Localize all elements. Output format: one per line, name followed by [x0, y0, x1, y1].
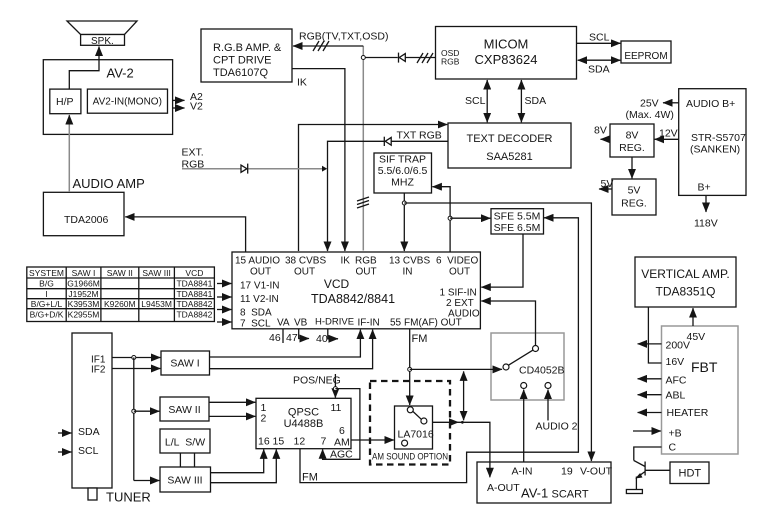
svg-text:U4488B: U4488B: [284, 418, 324, 430]
svg-text:VCD: VCD: [324, 277, 350, 291]
svg-text:IF2: IF2: [91, 365, 106, 376]
block TUNER: [72, 333, 112, 500]
svg-text:17 V1-IN: 17 V1-IN: [240, 281, 279, 292]
bus hatch on RGB line: [313, 41, 329, 51]
svg-text:AUDIO B+: AUDIO B+: [686, 98, 735, 110]
table header text: [29, 268, 203, 278]
wire gray EXT RGB line: [182, 166, 327, 172]
block QPSC U4488B: [256, 398, 351, 448]
svg-text:SIF TRAP: SIF TRAP: [379, 154, 426, 166]
wire MICOM SCL to EEPROM: [577, 42, 621, 44]
svg-text:RGB: RGB: [441, 57, 460, 67]
svg-text:8 SDA: 8 SDA: [240, 308, 272, 319]
svg-text:15 AUDIO: 15 AUDIO: [235, 256, 280, 267]
svg-text:REG.: REG.: [621, 198, 647, 210]
svg-text:IK: IK: [341, 256, 351, 267]
svg-text:ABL: ABL: [666, 390, 686, 402]
svg-text:L9453M: L9453M: [141, 299, 172, 309]
svg-text:AM SOUND OPTION: AM SOUND OPTION: [372, 452, 448, 463]
block AV-2: [43, 60, 172, 135]
wire stub arrow to VCD pin17 V1-IN: [217, 283, 231, 285]
svg-text:TDA8842: TDA8842: [176, 309, 212, 319]
wire B+ 118V: [705, 195, 707, 212]
svg-text:RGB(TV,TXT,OSD): RGB(TV,TXT,OSD): [299, 31, 388, 43]
svg-text:FM: FM: [412, 333, 428, 345]
svg-text:SDA: SDA: [78, 426, 100, 438]
VCD right pin labels: [440, 288, 480, 320]
QPSC pin labels: [258, 402, 350, 449]
wire SFE to VCD SIF-IN: [481, 234, 523, 287]
svg-text:IF-IN: IF-IN: [358, 318, 380, 329]
svg-text:REG.: REG.: [619, 142, 645, 154]
block SAW II: [160, 397, 209, 421]
svg-text:1 SIF-IN: 1 SIF-IN: [440, 288, 477, 299]
wire L/L S/W to SAW III link 1: [179, 453, 181, 467]
wire AUDIO 2 up to CD4052B: [547, 390, 549, 421]
block L/L S/W: [160, 429, 210, 453]
wire VCD pin VA stub: [282, 329, 284, 343]
wire SCL stub into TUNER: [58, 451, 71, 453]
wire VCD pin VB bent arrow: [299, 329, 309, 339]
svg-text:AUDIO AMP: AUDIO AMP: [73, 176, 145, 191]
svg-text:CPT DRIVE: CPT DRIVE: [213, 55, 271, 67]
svg-text:16: 16: [258, 436, 270, 448]
svg-text:19: 19: [561, 466, 573, 478]
svg-text:+B: +B: [669, 428, 682, 440]
wire SAW I out 1 to VCD IF-IN: [210, 330, 361, 357]
wire SIF TRAP to VCD CVBS IN: [403, 193, 405, 251]
block SAW III: [160, 467, 211, 492]
wire POS/NEG into QPSC pin11: [334, 374, 336, 398]
transistor Q horizontal output: [634, 461, 670, 490]
wire QPSC pin12 FM to SFE: [300, 218, 578, 483]
wire CVBS OUT to TEXT DECODER: [299, 125, 448, 252]
svg-text:8V: 8V: [594, 125, 607, 137]
svg-text:MHZ: MHZ: [391, 177, 414, 189]
svg-text:5V: 5V: [628, 185, 641, 197]
wire MICOM SDA to EEPROM double arrow: [578, 59, 621, 61]
wire SAW I out 2 to VCD IF-IN: [210, 330, 373, 369]
node junction on CVBS IN line: [402, 201, 406, 205]
svg-text:R.G.B AMP. &: R.G.B AMP. &: [213, 42, 282, 54]
svg-text:V2: V2: [190, 101, 203, 113]
svg-text:7: 7: [321, 436, 327, 448]
wire 12V STR to 8V REG: [655, 138, 679, 140]
svg-text:L/L S/W: L/L S/W: [165, 437, 205, 449]
svg-text:SAW II: SAW II: [168, 404, 200, 416]
block EEPROM: [621, 41, 671, 63]
wire gray TDA2006 to H/P arrow: [68, 115, 70, 192]
svg-text:SAW I: SAW I: [170, 358, 199, 370]
svg-text:RGB: RGB: [182, 159, 205, 171]
svg-text:B+: B+: [698, 182, 711, 194]
wire MICOM-TEXTDECODER SDA double arrow: [520, 80, 522, 122]
svg-text:K3953M: K3953M: [68, 299, 100, 309]
table row B/G+L/L: [31, 299, 213, 309]
svg-text:SAW II: SAW II: [107, 268, 133, 278]
node junction on IF1 line: [132, 356, 136, 360]
wire SAW III out to QPSC pin16: [211, 449, 264, 472]
wire FBT HEATER out: [638, 412, 662, 414]
svg-text:OUT: OUT: [449, 267, 470, 278]
wire SDA stub into TUNER: [58, 432, 71, 434]
svg-text:FM(AF) OUT: FM(AF) OUT: [404, 318, 462, 329]
speaker SPK box: [81, 35, 125, 46]
table system/SAW/VCD: [27, 267, 215, 322]
wire VCD pin55 FM(AF) OUT down to LA7016: [409, 329, 411, 405]
svg-text:200V: 200V: [666, 340, 691, 352]
wire FBT 45V to VERTICAL AMP: [692, 308, 694, 326]
svg-text:FBT: FBT: [691, 359, 718, 375]
wire gray RGB from VCD RGB OUT up: [362, 46, 364, 251]
table row B/G+D/K: [30, 309, 213, 319]
svg-text:SCART: SCART: [552, 489, 589, 501]
wire MICOM-TEXTDECODER SCL double arrow: [486, 80, 488, 122]
svg-text:TXT RGB: TXT RGB: [397, 130, 442, 142]
svg-text:I: I: [45, 289, 47, 299]
svg-text:J1952M: J1952M: [68, 289, 98, 299]
svg-text:11: 11: [331, 402, 342, 414]
svg-text:TUNER: TUNER: [106, 490, 151, 505]
node dot on AM option line: [461, 421, 464, 424]
svg-text:6: 6: [339, 425, 345, 437]
svg-text:SCL: SCL: [589, 32, 610, 44]
svg-text:55: 55: [390, 318, 402, 329]
svg-text:TDA8842/8841: TDA8842/8841: [311, 292, 395, 306]
switch contacts inside CD4052B: [503, 346, 551, 389]
svg-text:LA7016: LA7016: [398, 429, 434, 441]
svg-text:VB: VB: [294, 318, 308, 329]
svg-text:11 V2-IN: 11 V2-IN: [240, 294, 279, 305]
block MICOM CXP83624: [436, 27, 577, 80]
svg-text:12V: 12V: [659, 128, 678, 140]
wire VERTICAL AMP to FBT 16V: [648, 308, 661, 364]
block R.G.B AMP and CPT DRIVE TDA6107Q: [201, 29, 292, 82]
wire AGC loop to QPSC pin7: [323, 389, 360, 460]
block HDT: [670, 462, 709, 484]
wire VCD 15 AUDIO OUT to TDA2006: [125, 217, 245, 252]
svg-text:MICOM: MICOM: [484, 37, 529, 52]
svg-text:SAW I: SAW I: [72, 268, 96, 278]
svg-text:8V: 8V: [626, 130, 639, 142]
diode D on TXT RGB line: [384, 137, 391, 146]
svg-text:(Max. 4W): (Max. 4W): [626, 109, 674, 121]
svg-text:AV-2: AV-2: [107, 66, 134, 81]
svg-text:7 SCL: 7 SCL: [240, 319, 271, 330]
wire video branch to AV-1 V-OUT: [404, 203, 591, 461]
svg-text:15: 15: [273, 436, 285, 448]
block AV-1 SCART: [477, 462, 611, 503]
wire LA7016 out arrow to junction: [433, 421, 459, 423]
svg-text:K2955M: K2955M: [68, 309, 100, 319]
svg-text:40: 40: [316, 333, 328, 345]
wire L/L S/W to SAW III link 2: [194, 453, 196, 467]
svg-text:SAW III: SAW III: [142, 268, 171, 278]
wire FBT AFC out: [638, 378, 662, 380]
svg-text:AV2-IN(MONO): AV2-IN(MONO): [93, 97, 162, 108]
block 8V REG: [610, 124, 654, 157]
wire junction to AV-1 A-OUT: [459, 422, 490, 477]
svg-text:12: 12: [294, 436, 306, 448]
wire QPSC AM out to LA7016: [351, 439, 394, 441]
block H/P: [50, 89, 81, 114]
svg-text:TDA8841: TDA8841: [176, 279, 212, 289]
dashed box AM SOUND OPTION: [370, 381, 450, 465]
table row I: [45, 289, 212, 299]
svg-text:HDT: HDT: [679, 468, 702, 480]
svg-text:FM: FM: [302, 472, 318, 484]
wire IK from R.G.B AMP to VCD: [292, 69, 345, 251]
svg-text:IK: IK: [297, 77, 307, 89]
wire SAW II out 1 to QPSC pin1: [209, 401, 255, 403]
svg-text:38 CVBS: 38 CVBS: [285, 256, 326, 267]
diode D on OSD RGB branch: [399, 53, 436, 63]
svg-text:SDA: SDA: [588, 64, 610, 76]
bus hatch on OSD RGB branch: [417, 53, 433, 63]
svg-text:5.5/6.0/6.5: 5.5/6.0/6.5: [378, 165, 428, 177]
wire SAW II out 2 to QPSC pin2: [209, 415, 255, 417]
svg-text:SCL: SCL: [465, 95, 486, 107]
svg-text:POS/NEG: POS/NEG: [293, 375, 341, 387]
svg-text:16V: 16V: [666, 356, 685, 368]
svg-text:118V: 118V: [694, 218, 718, 230]
svg-text:AFC: AFC: [666, 375, 687, 387]
svg-text:6 VIDEO: 6 VIDEO: [436, 256, 478, 267]
svg-text:TDA6107Q: TDA6107Q: [213, 67, 268, 79]
node junction on VIDEO OUT line: [448, 216, 452, 220]
svg-text:G1966M: G1966M: [67, 279, 100, 289]
svg-text:A-IN: A-IN: [512, 466, 533, 478]
wire stub arrow to VCD pin11 V2-IN: [217, 296, 231, 298]
VCD left pin labels: [240, 281, 279, 330]
node junction RGB branch: [361, 56, 398, 60]
wire V2 out arrow: [173, 107, 185, 109]
svg-text:CXP83624: CXP83624: [475, 52, 538, 67]
svg-text:VERTICAL AMP.: VERTICAL AMP.: [641, 267, 729, 281]
svg-text:CD4052B: CD4052B: [519, 365, 565, 377]
block LA7016: [395, 406, 433, 449]
svg-text:13 CVBS: 13 CVBS: [389, 256, 430, 267]
svg-text:OUT: OUT: [294, 267, 315, 278]
svg-text:OUT: OUT: [250, 267, 271, 278]
wire 8V out: [601, 138, 611, 140]
diode D on EXT RGB line: [241, 164, 248, 174]
wire TUNER IF2 to SAW I: [112, 368, 160, 370]
wire FBT C to transistor collector: [634, 447, 662, 461]
wire branch to SFE input: [450, 217, 490, 219]
FBT pin labels: [666, 331, 709, 454]
wire AV-2 H/P to SPK with arrow: [69, 47, 99, 90]
block SFE filters: [491, 209, 544, 234]
svg-text:2 EXT: 2 EXT: [446, 298, 474, 309]
block 5V REG: [612, 179, 656, 215]
svg-text:EEPROM: EEPROM: [624, 51, 667, 62]
svg-text:SAA5281: SAA5281: [486, 151, 532, 163]
wire option double arrow between FM and AM lines: [463, 371, 465, 420]
wire AV-1 A-IN up to CD4052B: [523, 390, 525, 462]
wire RGB(TV,TXT,OSD) arrow into R.G.B AMP: [293, 45, 363, 47]
svg-text:25V: 25V: [640, 98, 659, 110]
svg-text:SPK.: SPK.: [91, 36, 114, 47]
wire TXT RGB from TEXT DECODER to VCD: [328, 141, 449, 251]
svg-text:2: 2: [261, 413, 267, 425]
svg-text:OUT: OUT: [356, 267, 377, 278]
svg-text:AM: AM: [334, 437, 350, 449]
svg-text:V-OUT: V-OUT: [580, 466, 613, 478]
svg-text:SAW III: SAW III: [167, 475, 202, 487]
svg-text:K9260M: K9260M: [104, 299, 136, 309]
wire VCD EXT AUDIO from CD4052B common: [481, 301, 535, 346]
switch contacts inside LA7016: [402, 407, 427, 446]
wire 8V REG to 5V REG: [631, 157, 633, 178]
wire A2 out arrow: [173, 99, 185, 101]
speaker SPK horn symbol: [67, 21, 137, 35]
block FBT: [662, 326, 739, 454]
svg-text:AUDIO 2: AUDIO 2: [536, 421, 578, 433]
node junction on FM line: [408, 367, 412, 371]
wire stub arrow to VCD pin8 SDA: [217, 309, 231, 311]
table row B/G: [39, 279, 212, 289]
svg-text:SDA: SDA: [525, 95, 547, 107]
VCD top pin labels: [235, 256, 478, 278]
svg-text:SYSTEM: SYSTEM: [29, 268, 64, 278]
bus hatch on gray RGB vertical: [357, 197, 369, 208]
svg-text:AV-1: AV-1: [521, 486, 548, 501]
wire SAW III out to QPSC pin15: [211, 449, 277, 482]
block TEXT DECODER SAA5281: [448, 123, 571, 168]
wire FBT 200V out: [638, 343, 662, 345]
svg-text:H/P: H/P: [56, 96, 74, 108]
wire TUNER IF1 to SAW I: [112, 357, 160, 359]
block CD4052B switch: [491, 333, 564, 400]
svg-text:SFE 5.5M: SFE 5.5M: [494, 211, 541, 223]
svg-text:TDA8842: TDA8842: [176, 299, 212, 309]
svg-text:VCD: VCD: [185, 268, 203, 278]
svg-text:46: 46: [269, 332, 281, 344]
svg-text:EXT.: EXT.: [182, 147, 204, 159]
svg-text:TDA8841: TDA8841: [176, 289, 212, 299]
wire IF branch down to SAW II and SAW III: [133, 358, 135, 481]
block VERTICAL AMP TDA8351Q: [635, 257, 736, 307]
wire VCD pin H-DRIVE bent arrow: [328, 329, 338, 339]
svg-text:IN: IN: [403, 267, 413, 278]
svg-text:TEXT DECODER: TEXT DECODER: [467, 133, 553, 145]
svg-text:A-OUT: A-OUT: [487, 482, 520, 494]
svg-text:C: C: [669, 442, 677, 454]
block SAW I: [161, 351, 210, 375]
svg-text:B/G: B/G: [39, 279, 54, 289]
block VCD TDA8842/8841: [232, 252, 480, 329]
svg-text:47: 47: [286, 332, 298, 344]
wire branch arrow into SAW II: [134, 410, 160, 412]
node junction on POS/NEG line: [333, 387, 337, 391]
svg-text:RGB: RGB: [355, 256, 377, 267]
wire stub arrow to VCD pin7 SCL: [217, 321, 231, 323]
svg-text:H-DRIVE: H-DRIVE: [315, 317, 354, 328]
wire VCD VIDEO OUT up to SIF TRAP: [432, 187, 450, 252]
wire FM branch to CD4052B: [410, 368, 502, 370]
block STR-S5707 (SANKEN) power: [679, 89, 746, 196]
wire branch arrow into SAW III: [134, 480, 160, 482]
svg-text:TDA2006: TDA2006: [64, 214, 109, 226]
wire FBT ABL out: [638, 394, 662, 396]
svg-text:VA: VA: [277, 318, 290, 329]
ground symbol below transistor: [626, 490, 642, 494]
wire 25V out of STR: [663, 102, 679, 104]
svg-text:SFE 6.5M: SFE 6.5M: [494, 222, 541, 234]
svg-text:STR-S5707: STR-S5707: [691, 132, 746, 144]
svg-text:5V: 5V: [601, 178, 614, 190]
svg-text:B/G+L/L: B/G+L/L: [31, 299, 63, 309]
svg-text:AGC: AGC: [330, 449, 353, 461]
svg-text:(SANKEN): (SANKEN): [690, 144, 740, 156]
svg-text:B/G+D/K: B/G+D/K: [30, 309, 64, 319]
block SIF TRAP: [374, 153, 432, 193]
svg-text:HEATER: HEATER: [667, 407, 709, 419]
svg-text:QPSC: QPSC: [288, 407, 319, 419]
svg-text:TDA8351Q: TDA8351Q: [655, 285, 715, 299]
node junction at SAW II branch: [132, 409, 136, 413]
VCD bottom pin labels: [277, 317, 462, 329]
svg-text:SCL: SCL: [78, 445, 99, 457]
block AV2-IN(MONO): [87, 89, 167, 113]
wire +B into FBT: [633, 430, 661, 432]
block AUDIO AMP TDA2006: [43, 192, 124, 235]
wire 5V out: [599, 188, 612, 190]
